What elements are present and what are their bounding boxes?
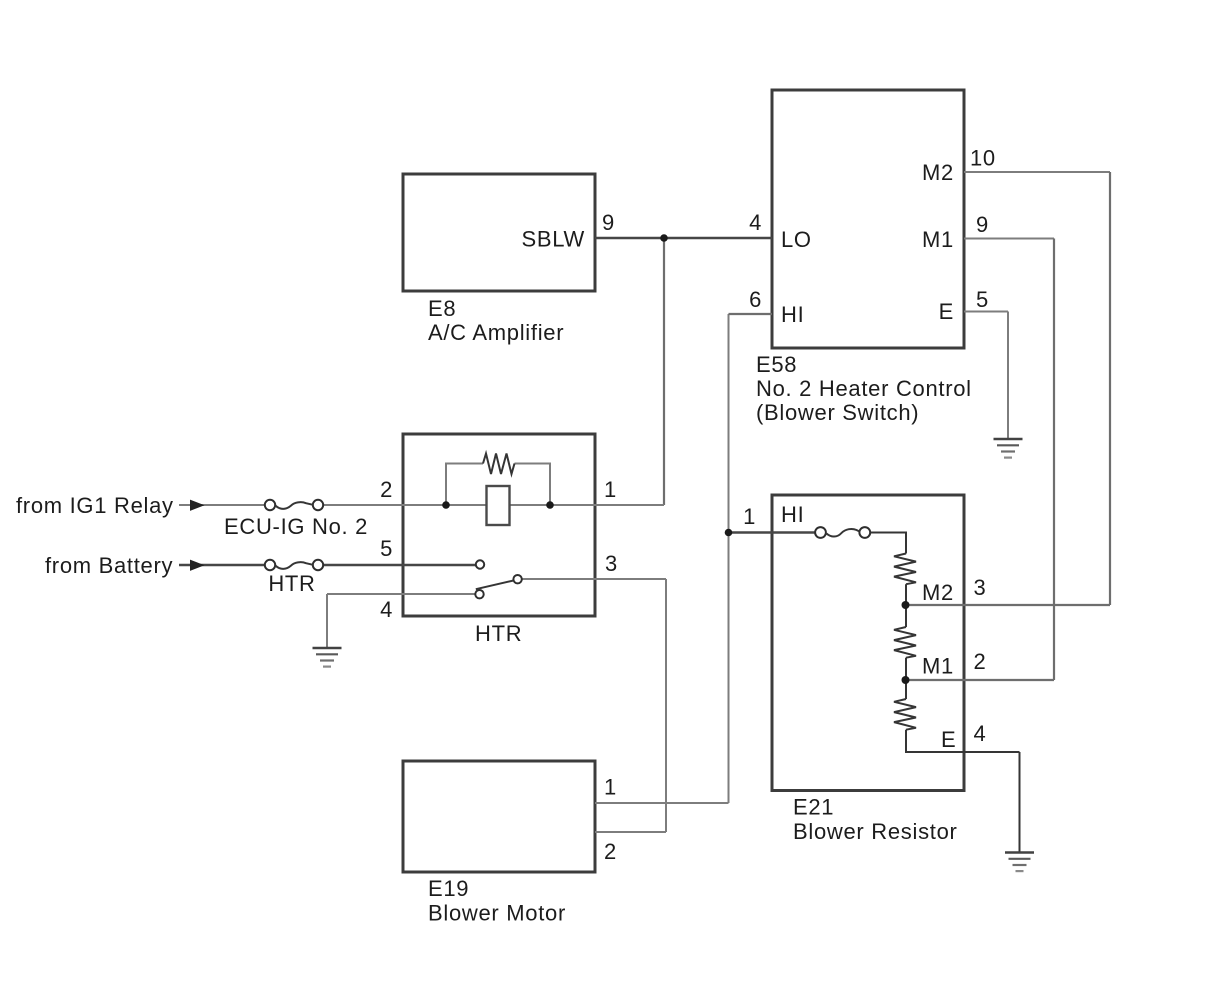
svg-text:4: 4 <box>749 210 762 235</box>
svg-text:10: 10 <box>970 146 996 171</box>
svg-text:E: E <box>941 727 956 752</box>
svg-text:M2: M2 <box>922 160 954 185</box>
svg-text:5: 5 <box>380 536 393 561</box>
svg-text:2: 2 <box>380 477 393 502</box>
svg-text:No. 2 Heater Control: No. 2 Heater Control <box>756 376 972 401</box>
svg-text:6: 6 <box>749 287 762 312</box>
svg-text:A/C Amplifier: A/C Amplifier <box>428 320 564 345</box>
svg-text:M2: M2 <box>922 580 954 605</box>
svg-text:M1: M1 <box>922 654 954 679</box>
svg-text:3: 3 <box>605 551 618 576</box>
svg-text:Blower Motor: Blower Motor <box>428 901 566 926</box>
svg-text:ECU-IG No. 2: ECU-IG No. 2 <box>224 514 368 539</box>
svg-text:4: 4 <box>380 597 393 622</box>
svg-text:9: 9 <box>976 212 989 237</box>
svg-text:2: 2 <box>604 839 617 864</box>
svg-text:3: 3 <box>974 575 987 600</box>
svg-text:E58: E58 <box>756 352 797 377</box>
svg-text:E: E <box>939 299 954 324</box>
svg-text:HTR: HTR <box>475 621 522 646</box>
svg-text:5: 5 <box>976 287 989 312</box>
svg-text:2: 2 <box>974 649 987 674</box>
svg-text:HI: HI <box>781 302 804 327</box>
svg-text:1: 1 <box>604 477 617 502</box>
svg-text:SBLW: SBLW <box>521 227 585 252</box>
svg-text:E8: E8 <box>428 296 456 321</box>
svg-text:M1: M1 <box>922 227 954 252</box>
svg-text:from Battery: from Battery <box>45 553 173 578</box>
svg-text:LO: LO <box>781 227 812 252</box>
svg-text:(Blower Switch): (Blower Switch) <box>756 400 919 425</box>
svg-text:from IG1 Relay: from IG1 Relay <box>16 493 174 518</box>
svg-text:Blower Resistor: Blower Resistor <box>793 819 958 844</box>
svg-text:E19: E19 <box>428 876 469 901</box>
svg-text:1: 1 <box>743 504 756 529</box>
svg-text:4: 4 <box>974 721 987 746</box>
svg-text:1: 1 <box>604 775 617 800</box>
svg-text:HTR: HTR <box>268 571 315 596</box>
svg-text:HI: HI <box>781 502 804 527</box>
svg-text:E21: E21 <box>793 795 834 820</box>
svg-text:9: 9 <box>602 210 615 235</box>
